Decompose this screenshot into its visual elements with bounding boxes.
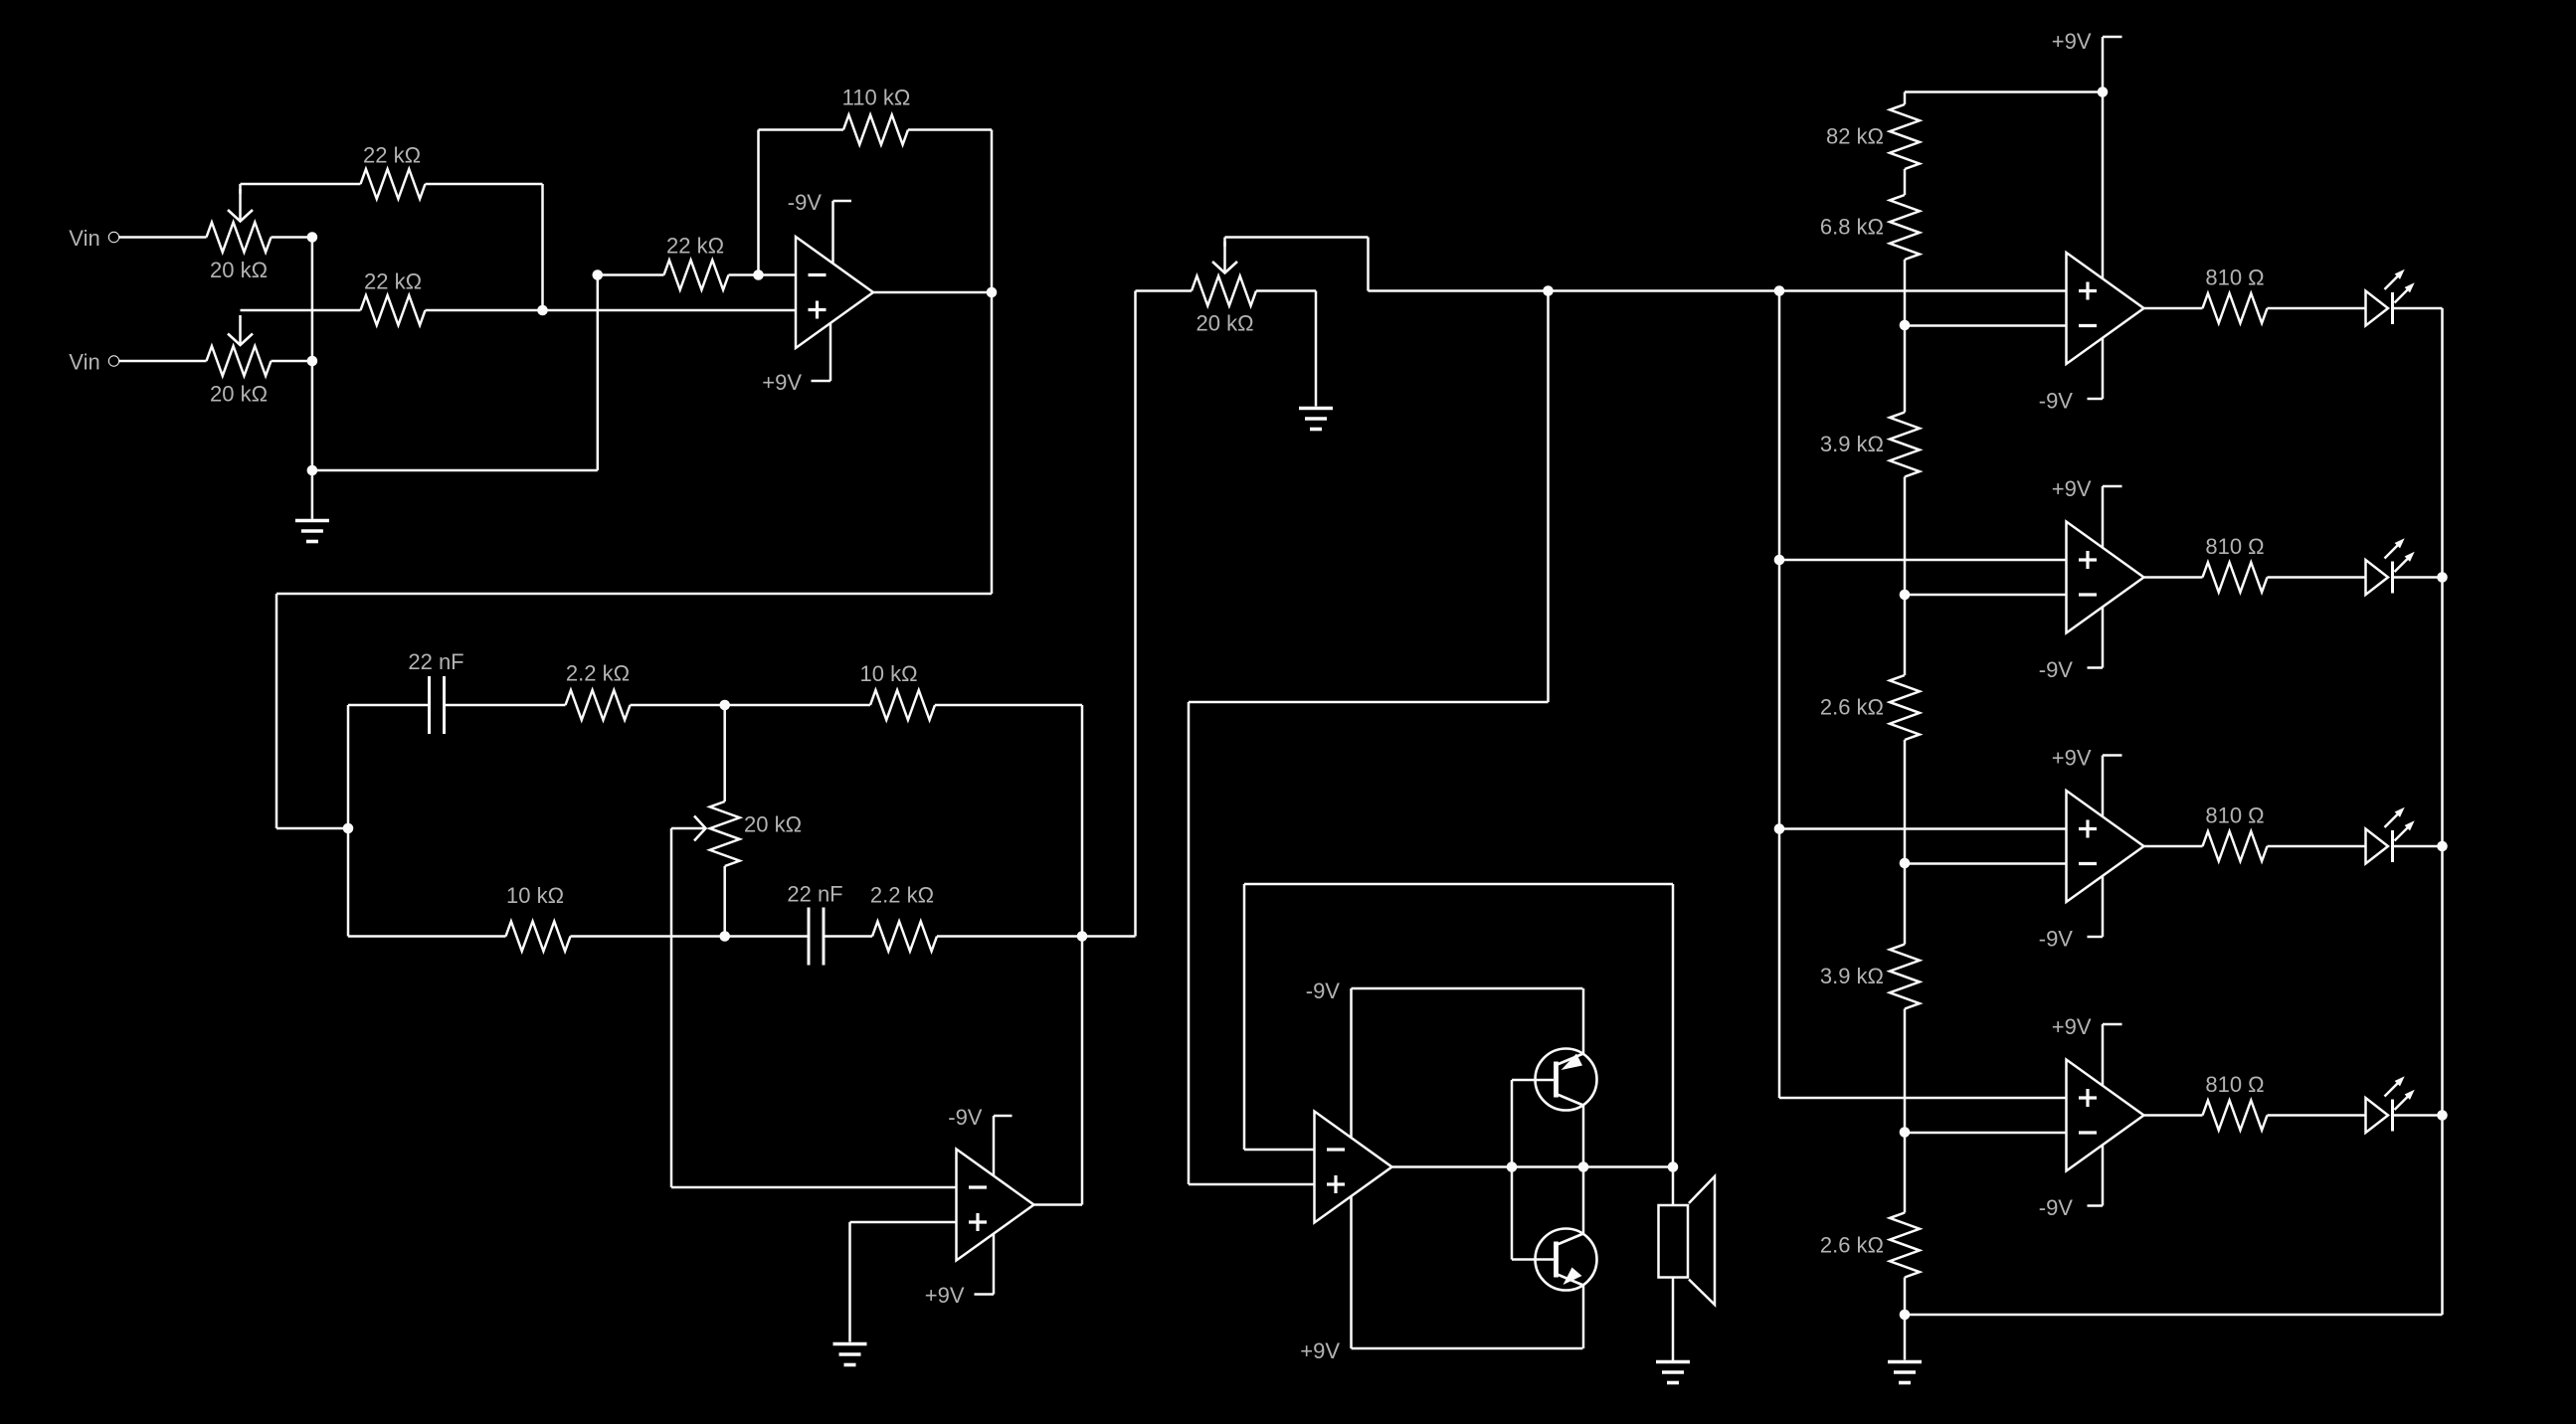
node F (U1 inverting input) (753, 269, 764, 280)
wire LED D1 to return bus (2393, 307, 2443, 310)
wire ground bus vertical (311, 238, 314, 471)
svg-text:-9V: -9V (2039, 1195, 2074, 1220)
wire ladder bottom to LED return (1905, 1314, 2443, 1317)
node O (comp3 + tap) (1774, 823, 1785, 834)
node AA (LED4 return) (2437, 1110, 2448, 1121)
wire signal to U3 + input (1189, 291, 1549, 1185)
resistor R3 22 kOhm (mix, input 1) (241, 143, 543, 311)
wire pot R9 wiper to U2 - input (671, 828, 957, 1187)
-9V rail (power amp) (1306, 979, 1583, 1138)
speaker SP1 (1659, 1167, 1716, 1361)
+9V supply U6 (2052, 746, 2122, 817)
LED D4 (2366, 1076, 2415, 1133)
node N (comp2 + tap) (1774, 555, 1785, 566)
resistor R10 10 kOhm (bottom row) (348, 883, 725, 952)
wire U2 output (1034, 1203, 1083, 1206)
node Vin input 1 terminal (69, 226, 206, 251)
svg-text:22 nF: 22 nF (408, 649, 463, 674)
wire pot1 arrow riser (239, 184, 242, 194)
node S (ladder +9V tap) (2098, 87, 2109, 97)
svg-text:3.9 kΩ: 3.9 kΩ (1820, 432, 1884, 456)
resistor R16 2.6 kOhm (1820, 595, 1920, 863)
node J (pot R9 bottom) (719, 931, 730, 942)
node D junction (ground bus bottom) (307, 465, 318, 476)
resistor R22 810 Ohm (2144, 1072, 2366, 1131)
-9V supply U4 (2039, 338, 2103, 414)
wire + input comparator U7 (1779, 1097, 2067, 1100)
resistor R6 110 kOhm (U1 feedback) (759, 86, 993, 293)
resistor R11 2.2 kOhm (870, 883, 1136, 952)
node V (comp3 ref tap) (1900, 858, 1911, 869)
wire pot R12 bottom to ground (1315, 291, 1318, 407)
svg-text:810 Ω: 810 Ω (2205, 803, 2264, 828)
svg-text:+9V: +9V (762, 370, 802, 395)
svg-text:810 Ω: 810 Ω (2205, 534, 2264, 559)
-9V supply U2 (948, 1105, 1012, 1176)
resistor R13 82 kOhm (1826, 92, 1920, 196)
ground G4 (speaker) (1656, 1362, 1690, 1383)
op-amp U3 (power amp) (1315, 1112, 1392, 1223)
wire transistor base tie (1512, 1080, 1554, 1260)
comparator U4 (2067, 253, 2144, 364)
+9V supply U4 (2052, 29, 2122, 279)
comparator U6 (2067, 791, 2144, 902)
svg-text:+9V: +9V (2052, 746, 2092, 771)
wire LED D2 to return bus (2393, 576, 2443, 579)
svg-text:-9V: -9V (788, 190, 823, 215)
wire meter signal bus (1369, 289, 2067, 292)
node Y (LED2 return) (2437, 572, 2448, 583)
ground G5 (ladder) (1888, 1315, 1922, 1383)
resistor R7 2.2 kOhm (566, 661, 725, 721)
svg-text:20 kΩ: 20 kΩ (744, 812, 802, 837)
resistor R15 3.9 kOhm (1820, 325, 1920, 595)
node G (U1 output) (873, 287, 997, 298)
resistor R19 810 Ohm (2144, 266, 2366, 324)
wire filter left vertical (347, 705, 350, 937)
+9V supply U7 (2052, 1014, 2122, 1086)
wire + input comparator U5 (1779, 559, 2067, 562)
node A junction (pot1 right terminal) (307, 232, 318, 243)
-9V supply U7 (2039, 1145, 2103, 1220)
wire - input comparator U4 (1905, 324, 2067, 327)
potentiometer R9 20 kOhm (filter tune) (671, 705, 802, 937)
resistor R20 810 Ohm (2144, 534, 2366, 593)
wire - input comparator U5 (1905, 594, 2067, 597)
svg-text:2.6 kΩ: 2.6 kΩ (1820, 1233, 1884, 1258)
svg-text:-9V: -9V (1306, 979, 1341, 1003)
-9V supply U1 (788, 190, 851, 264)
wire U1 output to filter input (276, 292, 992, 828)
node C summing junction (537, 305, 548, 316)
svg-text:22 kΩ: 22 kΩ (666, 234, 724, 259)
wire ground bus to R5 (312, 275, 598, 471)
wire pot R12 wiper (1212, 238, 1369, 291)
resistor R17 3.9 kOhm (1820, 863, 1920, 1133)
+9V supply U5 (2052, 476, 2122, 548)
svg-text:810 Ω: 810 Ω (2205, 1072, 2264, 1097)
LED D3 (2366, 807, 2415, 864)
transistor Q1 (upper) (1536, 988, 1597, 1167)
resistor R14 6.8 kOhm (1820, 195, 1920, 325)
LED D1 (2366, 269, 2415, 326)
wire filter output riser to pot R12 (1134, 291, 1137, 937)
wire LED return bus vertical (2441, 308, 2444, 1315)
svg-text:-9V: -9V (2039, 657, 2074, 682)
svg-text:110 kΩ: 110 kΩ (842, 86, 911, 110)
wire LED D3 to return bus (2393, 845, 2443, 848)
svg-text:+9V: +9V (925, 1283, 965, 1308)
resistor R4 22 kOhm (mix, input 2) (241, 269, 543, 326)
-9V supply U5 (2039, 607, 2103, 682)
+9V rail (power amp) (1300, 1196, 1582, 1363)
wire - input comparator U7 (1905, 1132, 2067, 1135)
wire summing node to op-amp U1 + input (543, 309, 797, 312)
svg-text:3.9 kΩ: 3.9 kΩ (1820, 964, 1884, 988)
node T (comp1 ref tap) (1900, 320, 1911, 331)
node Vin input 2 terminal (69, 350, 206, 375)
potentiometer R1 20 kOhm (input 1 level) (207, 189, 312, 282)
svg-text:20 kΩ: 20 kΩ (210, 382, 268, 407)
svg-text:22 kΩ: 22 kΩ (363, 143, 421, 168)
wire top row to U2 output (1081, 705, 1084, 1205)
svg-text:2.6 kΩ: 2.6 kΩ (1820, 695, 1884, 720)
-9V supply U6 (2039, 876, 2103, 952)
wire filter input branch (276, 827, 348, 830)
wire comparator + bus vertical (1778, 291, 1781, 1099)
svg-text:+9V: +9V (2052, 476, 2092, 501)
wire U3 output row (1392, 1165, 1674, 1168)
wire ladder top (1905, 90, 2103, 93)
svg-text:-9V: -9V (948, 1105, 983, 1130)
node B junction (pot2 right terminal) (307, 356, 318, 367)
svg-text:810 Ω: 810 Ω (2205, 266, 2264, 290)
transistor Q2 (lower) (1536, 1167, 1597, 1349)
node E (R5 input node) (593, 269, 604, 280)
wire U2 + input to ground (850, 1222, 957, 1342)
svg-text:-9V: -9V (2039, 927, 2074, 952)
resistor R5 22 kOhm (to U1 - input) (598, 234, 796, 290)
node M (signal tap to comparator bus) (1774, 285, 1785, 296)
wire + input comparator U6 (1779, 827, 2067, 830)
svg-text:2.2 kΩ: 2.2 kΩ (566, 661, 630, 686)
resistor R18 2.6 kOhm (1820, 1133, 1920, 1316)
svg-text:Vin: Vin (69, 350, 99, 375)
svg-text:10 kΩ: 10 kΩ (859, 661, 917, 686)
comparator U5 (2067, 522, 2144, 633)
+9V supply U2 (925, 1234, 994, 1308)
node U (comp2 ref tap) (1900, 590, 1911, 601)
potentiometer R12 20 kOhm (meter level) (1136, 276, 1317, 336)
wire U3 feedback loop (1244, 884, 1673, 1167)
svg-text:22 kΩ: 22 kΩ (364, 269, 422, 294)
svg-text:-9V: -9V (2039, 389, 2074, 414)
node Z (LED3 return) (2437, 841, 2448, 852)
resistor R8 10 kOhm (feedback top row) (725, 661, 1082, 720)
svg-text:+9V: +9V (2052, 29, 2092, 54)
svg-text:20 kΩ: 20 kΩ (210, 258, 268, 282)
node K (U2 output node) (1077, 931, 1088, 942)
capacitor C1 22 nF (348, 649, 566, 734)
svg-text:+9V: +9V (1300, 1338, 1340, 1363)
ground G3 (pot R12) (1299, 409, 1333, 430)
node X (ladder bottom) (1900, 1310, 1911, 1321)
svg-text:20 kΩ: 20 kΩ (1196, 311, 1253, 336)
LED D2 (2366, 538, 2415, 595)
svg-text:82 kΩ: 82 kΩ (1826, 124, 1884, 149)
svg-text:10 kΩ: 10 kΩ (506, 883, 564, 908)
node Q (emitter join) (1578, 1161, 1589, 1172)
svg-text:Vin: Vin (69, 226, 99, 251)
op-amp U2 (filter amplifier) (957, 1150, 1034, 1261)
ground G1 (mixer) (295, 470, 329, 542)
+9V supply U1 (762, 323, 830, 396)
node W (comp4 ref tap) (1900, 1127, 1911, 1138)
resistor R21 810 Ohm (2144, 803, 2366, 862)
wire LED D4 to return bus (2393, 1114, 2443, 1117)
ground G2 (U2 + input) (833, 1344, 867, 1365)
node H (filter left junction) (343, 823, 354, 834)
node I (pot R9 top) (719, 700, 730, 711)
node P (base drive) (1507, 1161, 1518, 1172)
node L (signal tap to power amp) (1543, 285, 1554, 296)
svg-text:22 nF: 22 nF (787, 882, 842, 907)
op-amp U1 (mixer amplifier) (796, 237, 873, 348)
node R (speaker node) (1668, 1161, 1679, 1172)
comparator U7 (2067, 1060, 2144, 1171)
wire - input comparator U6 (1905, 862, 2067, 865)
svg-text:6.8 kΩ: 6.8 kΩ (1820, 215, 1884, 240)
potentiometer R2 20 kOhm (input 2 level) (207, 315, 312, 407)
capacitor C2 22 nF (725, 882, 872, 966)
svg-text:2.2 kΩ: 2.2 kΩ (870, 883, 934, 908)
svg-text:+9V: +9V (2052, 1014, 2092, 1039)
